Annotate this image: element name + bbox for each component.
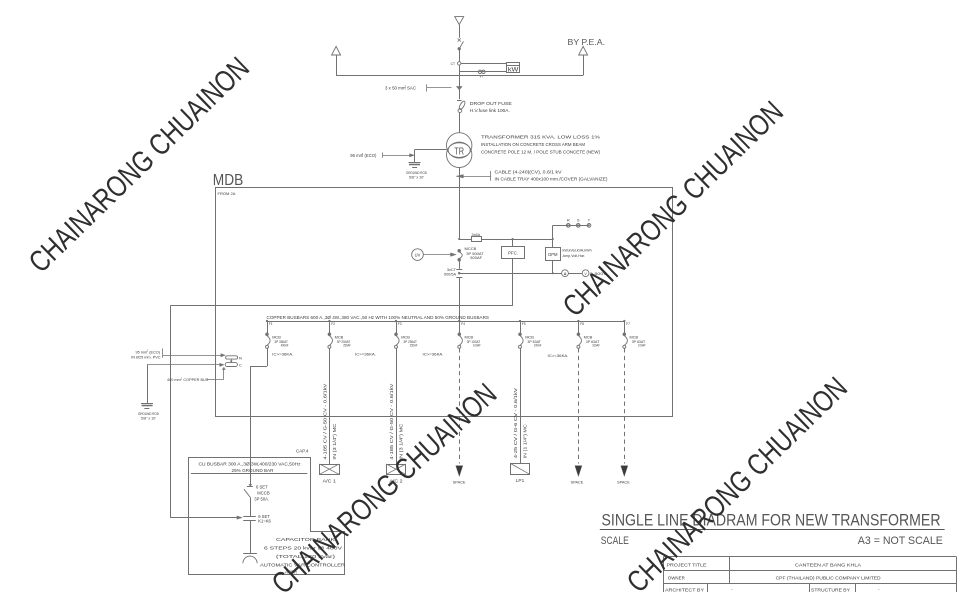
wire	[459, 65, 461, 75]
breaker MCB feeder F5 3P 63AT	[519, 320, 542, 348]
svg-text:SPACE: SPACE	[617, 480, 630, 484]
label F5 cable	[513, 388, 527, 458]
wire ammeter line	[459, 272, 561, 274]
CT tap CT1	[451, 62, 461, 66]
wire HV ground	[415, 150, 447, 163]
MDB enclosure box	[216, 188, 673, 417]
breaker MCB feeder F7 3P 63AT	[623, 320, 646, 348]
svg-text:C: C	[239, 363, 242, 368]
svg-text:4-185 CV / G-50 CV - 0.6/1kV: 4-185 CV / G-50 CV - 0.6/1kV	[323, 383, 328, 459]
drop out fuse F0	[457, 100, 466, 133]
svg-text:100AF: 100AF	[638, 344, 646, 348]
load LP1	[510, 463, 529, 482]
wire transformer to MDB	[459, 168, 461, 240]
fuse 3x6A	[472, 233, 482, 242]
svg-text:(ECO): (ECO)	[365, 153, 377, 158]
reactor / discharge device	[243, 554, 257, 564]
label capacitor bank	[260, 537, 346, 575]
svg-text:4-25 CV / G-6 CV - 0.6/1kV: 4-25 CV / G-6 CV - 0.6/1kV	[513, 388, 518, 458]
label 3x50 SAC leader	[385, 84, 462, 91]
label drop out fuse	[470, 101, 512, 113]
wire VT line	[459, 71, 506, 73]
wire DPM drop	[552, 239, 554, 248]
svg-text:N: N	[239, 355, 242, 360]
svg-text:500/5A: 500/5A	[444, 273, 457, 277]
node left terminal (triangle)	[332, 46, 341, 75]
wire	[459, 75, 461, 99]
svg-text:DROP OUT FUSE: DROP OUT FUSE	[470, 101, 512, 106]
svg-text:F2: F2	[331, 322, 335, 326]
wire feeder F7 (spare, dashed)	[624, 348, 626, 463]
wire PFC control to capacitor bank	[170, 259, 512, 520]
wire RST riser	[553, 225, 590, 239]
svg-text:K1~K6: K1~K6	[258, 519, 271, 524]
transformer TR	[447, 133, 472, 168]
label LV cable leader	[456, 169, 608, 181]
label MCCB main	[465, 246, 485, 260]
wire	[250, 474, 252, 486]
svg-text:CPF (THAILAND) PUBLIC COMPANY: CPF (THAILAND) PUBLIC COMPANY LIMITED	[776, 576, 882, 581]
svg-text:3xCT: 3xCT	[447, 268, 457, 272]
meter DPM	[546, 248, 561, 261]
breaker MCCB capacitor 3P 50A	[244, 484, 253, 516]
svg-text:H.V.fuse link 100A.: H.V.fuse link 100A.	[470, 108, 510, 113]
svg-text:INSTALLATION ON CONCRETE CROSS: INSTALLATION ON CONCRETE CROSS ARM BEAM	[481, 142, 585, 147]
svg-text:MDB: MDB	[213, 172, 244, 189]
svg-text:kW: kW	[508, 67, 519, 73]
wire feeder F4 (spare, dashed)	[459, 348, 461, 463]
svg-text:SAC: SAC	[407, 86, 416, 91]
load A/C 2	[386, 464, 405, 483]
wire PFC drop	[512, 239, 514, 246]
label CAP.4	[296, 449, 309, 454]
svg-text:250AF: 250AF	[410, 344, 418, 348]
svg-text:IC>=36KA.: IC>=36KA.	[355, 351, 376, 356]
svg-text:F5: F5	[522, 322, 526, 326]
svg-text:LP1: LP1	[516, 478, 525, 483]
svg-text:R: R	[567, 217, 570, 222]
svg-text:A3 = NOT SCALE: A3 = NOT SCALE	[858, 535, 943, 547]
wire control fuse line	[458, 238, 553, 240]
node spare arrow F7	[617, 466, 630, 485]
disconnect switch S1	[458, 38, 464, 50]
svg-text:3x6A: 3x6A	[472, 233, 481, 237]
wire DPM to CT line	[552, 260, 554, 273]
svg-text:400 mm: 400 mm	[167, 378, 181, 382]
svg-text:SCALE: SCALE	[601, 535, 629, 547]
svg-text:MCB: MCB	[335, 335, 344, 340]
svg-text:MCB: MCB	[584, 335, 593, 340]
svg-text:MCB: MCB	[630, 335, 639, 340]
wire feeder F5	[520, 348, 522, 463]
svg-text:F3: F3	[398, 322, 402, 326]
svg-text:CT: CT	[451, 62, 456, 66]
svg-text:DPM: DPM	[548, 252, 558, 257]
svg-text:500AF: 500AF	[470, 255, 482, 260]
svg-text:3 x 50 mm: 3 x 50 mm	[385, 86, 406, 91]
wire MCCB to busbar	[459, 277, 461, 321]
wire to kW meter	[461, 63, 506, 65]
title SINGLE LINE DIAGRAM	[600, 512, 945, 530]
node N-G bond	[230, 359, 232, 363]
svg-text:CAP.4: CAP.4	[296, 449, 309, 454]
svg-text:kW,kVar,kVA,kWh: kW,kVar,kVA,kWh	[563, 248, 592, 252]
node incoming HV terminal (triangle)	[455, 17, 464, 25]
svg-text:MCB: MCB	[525, 335, 534, 340]
svg-text:IN (3 1/4") MC: IN (3 1/4") MC	[332, 424, 337, 460]
wire feeder F2	[329, 348, 331, 464]
capacitor K1-K6 (6 set)	[243, 514, 271, 524]
breaker MCB feeder F6 3P 63AT	[577, 320, 600, 348]
svg-text:IN Ø25 mm. PVC: IN Ø25 mm. PVC	[131, 356, 161, 360]
svg-text:25% GROUND BAR: 25% GROUND BAR	[232, 468, 274, 473]
label IC rating	[272, 351, 568, 358]
ground rod (transformer)	[406, 163, 427, 180]
svg-text:MCB: MCB	[465, 335, 474, 340]
wire feeder F3	[396, 348, 398, 464]
svg-text:ARCHITECT BY: ARCHITECT BY	[665, 587, 704, 592]
wire HV main line	[336, 75, 583, 77]
svg-text:CABLE (4-240)(CV), 0.6/1 kV: CABLE (4-240)(CV), 0.6/1 kV	[495, 169, 562, 174]
svg-text:F1: F1	[269, 322, 273, 326]
svg-text:100AF: 100AF	[534, 344, 542, 348]
svg-text:Amp,Volt,Har.: Amp,Volt,Har.	[563, 254, 586, 258]
svg-text:MCB: MCB	[272, 335, 281, 340]
svg-text:STRUCTURE BY: STRUCTURE BY	[811, 587, 850, 592]
wire to ground rod	[147, 365, 149, 404]
kWh meter kW	[506, 63, 520, 74]
svg-text:MCB: MCB	[401, 335, 410, 340]
ground rod (MDB)	[138, 404, 159, 421]
svg-text:FROM 2A: FROM 2A	[218, 191, 236, 196]
svg-text:OWNER: OWNER	[668, 576, 686, 581]
svg-text:TRANSFORMER 315 KVA. LOW LOSS: TRANSFORMER 315 KVA. LOW LOSS 1%	[481, 134, 600, 139]
wire feeder F6 (spare, dashed)	[578, 348, 580, 463]
label MCCB capacitor	[254, 484, 270, 501]
breaker MCB feeder F4 3P 100AT	[458, 320, 481, 348]
svg-text:CANTEEN AT BANG KHLA: CANTEEN AT BANG KHLA	[795, 562, 861, 567]
svg-text:TR: TR	[454, 146, 464, 157]
svg-text:100AF: 100AF	[592, 344, 600, 348]
svg-text:SPACE: SPACE	[571, 480, 584, 484]
svg-text:IC>=36KA.: IC>=36KA.	[423, 351, 444, 356]
node right terminal BY P.E.A.	[568, 37, 606, 75]
meter AS selector	[562, 270, 569, 277]
label FROM 2A	[218, 191, 236, 196]
svg-text:F4: F4	[461, 322, 465, 326]
svg-text:CONCRETE POLE 12 M. / POLE ST: CONCRETE POLE 12 M. / POLE STUB CONCETE …	[481, 150, 600, 155]
svg-text:BY P.E.A.: BY P.E.A.	[568, 37, 606, 47]
wire	[568, 273, 582, 275]
wire ground leader	[147, 363, 224, 366]
svg-text:100AF: 100AF	[473, 344, 481, 348]
meter V 0-500	[582, 270, 607, 277]
busbar	[267, 320, 624, 322]
svg-text:IC>=36KA.: IC>=36KA.	[548, 353, 569, 358]
busbar G (ground bar)	[225, 363, 242, 368]
wire	[459, 261, 461, 269]
svg-text:IN CABLE TRAY 400x100 mm./COVE: IN CABLE TRAY 400x100 mm./COVER (GALVANI…	[495, 176, 609, 181]
svg-text:IN (1 1/4") MC: IN (1 1/4") MC	[522, 424, 527, 458]
relay UV	[412, 249, 457, 261]
svg-text:3P 50A.: 3P 50A.	[254, 496, 269, 501]
svg-text:5/8" x 10': 5/8" x 10'	[141, 416, 156, 420]
svg-text:CU BUSBAR 300 A.,3Ø,3W,400/230: CU BUSBAR 300 A.,3Ø,3W,400/230 VAC,50Hz	[199, 461, 301, 466]
label 400mm copper bus	[167, 367, 225, 382]
wire	[459, 50, 461, 62]
label CU busbar	[199, 461, 301, 472]
node junction	[552, 238, 554, 240]
label SCALE	[601, 535, 943, 547]
watermark 2	[557, 95, 790, 323]
svg-text:COPPER BUSBARS 600 A.,3Ø 4W.,3: COPPER BUSBARS 600 A.,3Ø 4W.,380 VAC.,50…	[267, 315, 490, 320]
svg-text:IC>=36KA.: IC>=36KA.	[272, 351, 293, 356]
wire	[250, 521, 252, 554]
label MDB	[213, 172, 244, 189]
svg-text:A: A	[564, 272, 567, 276]
svg-text:5/8" x 10': 5/8" x 10'	[409, 176, 424, 180]
watermark 1	[23, 51, 256, 279]
label DPM functions	[563, 248, 592, 258]
svg-text:SINGLE LINE DIADRAM FOR NEW TR: SINGLE LINE DIADRAM FOR NEW TRANSFORMER	[602, 512, 941, 530]
svg-text:SPACE: SPACE	[453, 480, 466, 484]
label transformer specs	[481, 134, 600, 154]
svg-text:UV: UV	[415, 252, 421, 257]
label 95mm ECO neutral leader	[131, 349, 225, 360]
svg-text:PFC.: PFC.	[508, 251, 518, 256]
svg-text:COPPER BUS: COPPER BUS	[183, 378, 208, 382]
controller PFC	[502, 247, 525, 259]
busbar N (neutral bar)	[226, 355, 242, 360]
svg-text:A/C 1: A/C 1	[323, 478, 337, 483]
breaker MCB feeder F2 3P 250AT	[328, 320, 351, 348]
svg-text:250AF: 250AF	[343, 344, 351, 348]
svg-text:MCCB: MCCB	[257, 490, 270, 495]
svg-text:F7: F7	[626, 322, 630, 326]
watermark 3	[266, 377, 503, 592]
capacitor bank box	[189, 458, 345, 575]
busbar capacitor CU bar	[191, 473, 307, 475]
svg-text:400AF: 400AF	[281, 344, 289, 348]
breaker MCCB main 3P 500AT	[458, 249, 462, 261]
breaker MCB feeder F1 3P 350AT	[266, 320, 289, 348]
node spare arrow F6	[571, 466, 584, 485]
wire feeder F1 to capacitor bank	[250, 348, 267, 474]
svg-text:4-185 CV / G-50 CV - 0.6/1kV: 4-185 CV / G-50 CV - 0.6/1kV	[389, 383, 394, 459]
node spare arrow F4	[453, 466, 466, 485]
svg-text:F6: F6	[580, 322, 584, 326]
title block table	[663, 557, 956, 592]
svg-text:95 mm: 95 mm	[136, 350, 148, 354]
voltage transformer VT	[478, 70, 485, 78]
breaker MCB feeder F3 3P 250AT	[395, 320, 418, 348]
svg-text:(ECO): (ECO)	[149, 350, 160, 354]
load A/C 1	[320, 464, 340, 483]
svg-text:6 SET: 6 SET	[256, 484, 268, 489]
node test terminals R S T	[566, 217, 591, 227]
CT main 3xCT 500/5A	[444, 268, 462, 278]
wire	[459, 25, 461, 38]
watermark 4	[621, 371, 854, 592]
label F3 cable	[389, 383, 403, 459]
title block texts	[665, 562, 881, 592]
node junction	[512, 238, 514, 240]
label 95mm ECO leader	[350, 152, 414, 158]
label copper busbars	[267, 315, 490, 320]
svg-text:S: S	[577, 217, 580, 222]
label F2 cable	[323, 383, 337, 459]
